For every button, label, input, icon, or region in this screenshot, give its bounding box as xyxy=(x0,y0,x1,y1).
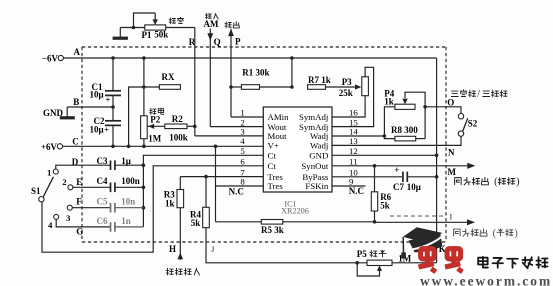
node Q input arrow xyxy=(207,29,220,127)
IC pin names xyxy=(268,112,329,191)
label bias xyxy=(150,108,164,114)
capacitor C3 xyxy=(97,156,131,170)
wire E row xyxy=(73,186,111,188)
wire pin 8 stub xyxy=(216,186,263,197)
wire -6V rail xyxy=(63,58,436,263)
svg-text:C4: C4 xyxy=(97,176,108,186)
wire pin 12 to -6V xyxy=(332,154,438,158)
svg-text:R5 3k: R5 3k xyxy=(261,225,284,235)
svg-text:+6V: +6V xyxy=(41,142,58,152)
label AM input xyxy=(204,13,219,29)
wire pin 6 to S1 common xyxy=(42,166,263,252)
wire pin 11 sync output M xyxy=(332,163,475,169)
scan input H arrow xyxy=(178,208,184,260)
wire +6V rail to pin 4 xyxy=(63,145,264,147)
svg-text:R7 1k: R7 1k xyxy=(308,75,331,85)
wire P1 to node R xyxy=(166,27,195,29)
svg-text:8: 8 xyxy=(240,177,245,187)
svg-text:10μ: 10μ xyxy=(90,125,104,135)
svg-text:1k: 1k xyxy=(165,198,175,208)
svg-text:Tres: Tres xyxy=(268,181,284,191)
svg-text:10μ: 10μ xyxy=(90,90,104,100)
svg-text:(: ( xyxy=(494,177,498,188)
svg-text:P1: P1 xyxy=(142,30,152,40)
svg-text:GND: GND xyxy=(43,108,64,118)
capacitor C7 xyxy=(393,165,421,192)
svg-text:Ct: Ct xyxy=(268,151,277,161)
svg-text:16: 16 xyxy=(349,108,358,118)
node B xyxy=(73,97,79,107)
svg-text:1: 1 xyxy=(47,167,51,177)
wire C5 right xyxy=(115,207,143,209)
svg-text:+: + xyxy=(106,94,111,104)
svg-text:10n: 10n xyxy=(121,196,135,206)
svg-text:R1 30k: R1 30k xyxy=(242,67,269,77)
resistor R7 xyxy=(308,75,331,89)
svg-text:C6: C6 xyxy=(97,216,108,226)
resistor R6 xyxy=(371,166,391,222)
svg-text:N.C: N.C xyxy=(349,186,364,196)
wire node O xyxy=(425,107,461,114)
label amplitude xyxy=(169,17,183,23)
node P output arrow xyxy=(228,29,241,117)
wire pin 3 xyxy=(193,125,263,136)
svg-text:P2: P2 xyxy=(150,114,160,124)
label output xyxy=(225,22,239,28)
watermark url xyxy=(420,274,552,286)
node A xyxy=(74,47,81,57)
svg-text:Q: Q xyxy=(214,37,221,47)
svg-text:C: C xyxy=(72,136,79,146)
switch S1 contacts xyxy=(47,167,73,229)
svg-text:N.C: N.C xyxy=(229,187,244,197)
wire R2 to node R xyxy=(187,125,195,127)
svg-text:M: M xyxy=(448,167,457,177)
svg-text:G: G xyxy=(76,226,83,236)
ground GND xyxy=(43,107,75,118)
svg-text:www.eeworm.com: www.eeworm.com xyxy=(420,274,552,286)
svg-text:FSKin: FSKin xyxy=(305,181,329,191)
wire P3 bottom to pin 16 xyxy=(332,96,365,117)
svg-text:XR2206: XR2206 xyxy=(281,207,309,216)
wire pin 2 xyxy=(210,126,263,128)
wire P4 left to pin 14 xyxy=(383,107,395,139)
wire R4 to P5 xyxy=(206,228,367,263)
node J xyxy=(211,244,216,254)
capacitor C1 xyxy=(90,82,122,104)
svg-text:S1: S1 xyxy=(31,186,41,196)
wire C6 right xyxy=(115,226,143,228)
wire node R vertical xyxy=(194,28,196,136)
svg-text:): ) xyxy=(516,177,519,188)
resistor R1 xyxy=(241,67,269,89)
wire R1 right to -6V xyxy=(260,56,294,89)
svg-text:E: E xyxy=(76,177,82,187)
op-amp U1 XR2206 IC box xyxy=(263,107,332,192)
svg-text:GND: GND xyxy=(309,151,328,161)
svg-text:4: 4 xyxy=(240,136,245,146)
svg-text:12: 12 xyxy=(349,146,358,156)
node R xyxy=(189,37,196,47)
wire P3 top loop to pin 15 xyxy=(332,67,374,126)
svg-text:(: ( xyxy=(493,228,497,239)
svg-text:9: 9 xyxy=(349,177,354,187)
node K xyxy=(439,244,446,254)
node E xyxy=(76,177,82,187)
svg-text:/: / xyxy=(477,89,480,100)
svg-text:P: P xyxy=(235,36,241,46)
svg-text:H: H xyxy=(169,244,176,254)
capacitor C5 xyxy=(97,196,136,212)
wire P4 right junction xyxy=(423,104,427,138)
switch S1 common xyxy=(31,177,53,202)
svg-text:6: 6 xyxy=(240,157,245,167)
wire RX left to +6V xyxy=(127,87,160,148)
wire P2 to +6V xyxy=(142,139,146,148)
node I xyxy=(449,213,452,222)
svg-text:1: 1 xyxy=(240,108,244,118)
wire pin 9 stub xyxy=(332,186,366,196)
node F xyxy=(76,197,82,207)
svg-text:R2: R2 xyxy=(172,114,183,124)
wire pin 1 xyxy=(231,116,263,118)
label frequency xyxy=(370,250,386,257)
svg-text:Wadj: Wadj xyxy=(310,141,328,151)
svg-text:1k: 1k xyxy=(384,97,394,107)
svg-text:1M: 1M xyxy=(148,134,162,144)
wire C7 to -6V xyxy=(408,175,439,179)
svg-text:I: I xyxy=(449,213,452,222)
terminal +6V xyxy=(41,142,63,152)
wire R5 to R6 junction xyxy=(283,220,377,224)
switch S2 xyxy=(458,114,478,137)
terminal -6V xyxy=(42,53,64,63)
capacitor C2 xyxy=(90,116,122,135)
wire pin 14 xyxy=(332,135,384,137)
svg-text:100n: 100n xyxy=(121,176,140,186)
svg-text:+: + xyxy=(104,125,109,135)
wire node B rail xyxy=(67,106,113,108)
svg-text:50k: 50k xyxy=(154,30,168,40)
wire pin 7 xyxy=(180,175,263,179)
svg-text:5k: 5k xyxy=(191,218,201,228)
svg-text:100k: 100k xyxy=(169,132,188,142)
svg-text:11: 11 xyxy=(349,157,357,167)
wire pin4 branch down xyxy=(214,145,218,222)
svg-text:13: 13 xyxy=(349,136,358,146)
svg-text:O: O xyxy=(447,98,454,108)
potentiometer P1 xyxy=(120,13,168,40)
wire -6V drop to P2 xyxy=(142,56,146,116)
node C xyxy=(72,136,79,146)
capacitor C4 xyxy=(97,176,140,192)
node N xyxy=(448,147,455,157)
resistor R8 xyxy=(391,125,418,141)
wire R1 left junction xyxy=(229,85,241,89)
wire C1 column xyxy=(111,56,115,109)
svg-text:Ct: Ct xyxy=(268,161,277,171)
label scan input xyxy=(166,268,199,275)
svg-text:C7: C7 xyxy=(393,182,404,192)
svg-text:1n: 1n xyxy=(121,216,131,226)
watermark chong-chong red characters xyxy=(419,246,463,272)
wire D row xyxy=(56,165,111,169)
resistor R2 xyxy=(165,114,188,142)
svg-text:F: F xyxy=(76,197,82,207)
svg-text:AM: AM xyxy=(204,19,219,29)
wire pin 10 to C7 xyxy=(332,176,402,178)
label sync output full xyxy=(455,177,520,188)
node M xyxy=(448,167,457,177)
svg-text:A: A xyxy=(74,47,81,57)
wire S2 to pin 13 xyxy=(332,136,461,145)
svg-text:N: N xyxy=(448,147,455,157)
wire to R5 xyxy=(216,221,262,223)
svg-text:+: + xyxy=(394,165,399,175)
svg-text:3: 3 xyxy=(66,213,71,223)
svg-text:V+: V+ xyxy=(268,141,279,151)
wire C4 right xyxy=(115,186,143,188)
svg-text:RX: RX xyxy=(162,72,175,82)
svg-text:2: 2 xyxy=(62,177,67,187)
svg-text:1μ: 1μ xyxy=(121,156,131,166)
svg-text:R8 300: R8 300 xyxy=(391,125,418,135)
svg-text:S2: S2 xyxy=(468,118,478,128)
resistor R4 xyxy=(190,177,209,228)
svg-text:4: 4 xyxy=(48,220,53,230)
svg-text:P3: P3 xyxy=(342,77,352,87)
node H xyxy=(169,244,176,254)
label sync output half xyxy=(454,228,518,239)
sync output half arrow xyxy=(375,219,476,225)
node D xyxy=(72,157,79,167)
svg-text:10μ: 10μ xyxy=(407,182,421,192)
wire F row xyxy=(72,207,110,209)
svg-text:25k: 25k xyxy=(339,88,353,98)
potentiometer P4 xyxy=(384,88,425,109)
resistor R5 xyxy=(261,220,284,236)
potentiometer P5 xyxy=(355,249,392,276)
label IC1 XR2206 xyxy=(281,199,309,215)
svg-text:B: B xyxy=(73,97,79,107)
wire G row xyxy=(56,219,110,227)
node O xyxy=(447,98,454,108)
svg-text:AMin: AMin xyxy=(268,112,290,122)
svg-text:−6V: −6V xyxy=(42,53,59,63)
label triangle/sine xyxy=(451,89,507,100)
svg-text:5: 5 xyxy=(240,146,245,156)
wire P5 right to -6V xyxy=(392,262,437,264)
IC pin numbers xyxy=(240,108,358,187)
potentiometer P3 xyxy=(339,77,369,98)
svg-text:): ) xyxy=(514,228,517,239)
svg-text:C3: C3 xyxy=(97,156,108,166)
wire R8 right xyxy=(416,138,425,140)
svg-text:C5: C5 xyxy=(97,196,108,206)
watermark site name xyxy=(478,257,547,268)
svg-text:P5: P5 xyxy=(357,249,367,259)
svg-text:SymAdj: SymAdj xyxy=(299,112,328,122)
dashed enclosure border xyxy=(82,47,446,242)
wire C3 right xyxy=(115,164,143,166)
resistor RX xyxy=(159,72,180,89)
node G xyxy=(76,226,83,236)
wire R7 to P3 wiper xyxy=(326,84,362,89)
label P5 value xyxy=(398,253,412,263)
svg-text:5k: 5k xyxy=(380,200,390,210)
watermark graduation cap xyxy=(401,227,442,258)
ground of P1 xyxy=(113,28,128,39)
capacitor C6 xyxy=(97,216,131,232)
wire pin 5 to cap bank xyxy=(142,155,264,227)
potentiometer P2 xyxy=(141,114,165,143)
svg-text:SynOut: SynOut xyxy=(301,161,328,171)
resistor R3 xyxy=(164,177,184,209)
wire C2 column xyxy=(111,107,115,148)
